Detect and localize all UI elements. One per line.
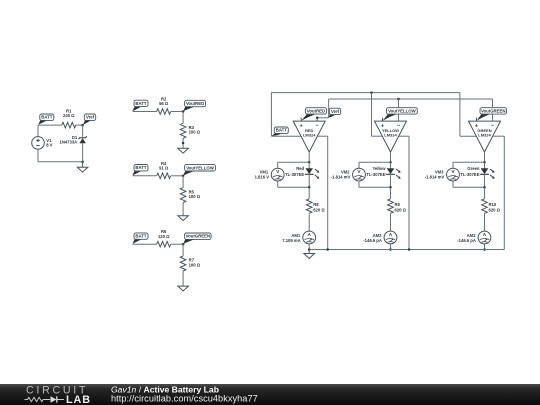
node Vref rail tap for U2 xyxy=(397,98,400,101)
svg-text:A: A xyxy=(389,232,393,238)
CircuitLab logo diode xyxy=(51,396,57,402)
svg-text:LM324: LM324 xyxy=(478,132,491,137)
wire LED to node xyxy=(484,174,486,187)
wire voltmeter VM2 top loop xyxy=(359,161,391,163)
node U1 output junction xyxy=(308,161,311,164)
pin stub U2 non-inverting input xyxy=(382,118,384,122)
svg-text:http://circuitlab.com/cscu4bkx: http://circuitlab.com/cscu4bkxyha77 xyxy=(111,394,258,404)
wire D1 anode to bottom xyxy=(82,143,84,161)
wire R2 to VoutRED node xyxy=(171,111,183,113)
wire voltmeter VM1 top loop xyxy=(278,161,310,163)
svg-text:VoutGREEN: VoutGREEN xyxy=(186,234,211,239)
ground left circuit xyxy=(82,162,84,168)
node below LED xyxy=(483,186,486,189)
svg-text:A: A xyxy=(307,232,311,238)
voltmeter VM3 xyxy=(447,168,460,181)
ground divider 1 xyxy=(178,148,189,153)
svg-text:Vref: Vref xyxy=(331,109,340,114)
node flag VoutRED xyxy=(183,107,194,112)
svg-text:TL-307EE: TL-307EE xyxy=(366,172,385,177)
node bottom junction xyxy=(81,160,84,163)
svg-text:VoutRED: VoutRED xyxy=(186,101,204,106)
svg-text:91 Ω: 91 Ω xyxy=(159,165,169,170)
svg-text:BATT: BATT xyxy=(135,101,147,106)
node U3 output junction xyxy=(483,161,486,164)
svg-text:VoutRED: VoutRED xyxy=(307,108,325,113)
zener diode D1 xyxy=(79,136,87,143)
svg-text:LM324: LM324 xyxy=(384,132,397,137)
svg-text:BATT: BATT xyxy=(135,234,147,239)
resistor R5 xyxy=(180,188,186,203)
svg-text:Green: Green xyxy=(467,166,480,171)
wire BATT rail drop to op-amp U2 V+ xyxy=(371,93,373,137)
svg-text:TL-307EE: TL-307EE xyxy=(460,172,479,177)
node flag VoutGREEN xyxy=(183,239,194,244)
ground divider 2 xyxy=(178,216,189,221)
wire VoutGREEN node down to R7 xyxy=(182,244,184,256)
svg-text:BATT: BATT xyxy=(41,115,53,120)
node VoutGREEN junction xyxy=(182,243,185,246)
pin stub U3 non-inverting input xyxy=(476,118,478,122)
wire V1 top lead xyxy=(37,125,39,137)
ammeter AM3 xyxy=(478,231,491,244)
resistor R7 xyxy=(180,256,186,271)
svg-text:240 Ω: 240 Ω xyxy=(63,113,75,118)
ground divider 3 xyxy=(178,286,189,291)
wire R7 to ground xyxy=(182,271,184,286)
wire voltmeter VM3 top loop xyxy=(453,161,485,163)
svg-text:7.109 mA: 7.109 mA xyxy=(282,238,300,243)
pin stub U1 inverting input xyxy=(316,118,318,121)
node flag VoutRED at U1 xyxy=(301,114,316,121)
wire Vref rail drop to U2 inverting input xyxy=(398,99,400,121)
svg-text:120 Ω: 120 Ω xyxy=(158,234,170,239)
LED D2 Red xyxy=(306,169,312,174)
svg-text:Red: Red xyxy=(296,166,304,171)
svg-text:TL-307EE: TL-307EE xyxy=(285,172,304,177)
resistor R9 xyxy=(388,199,394,214)
ammeter AM1 xyxy=(303,231,316,244)
wire BATT to R4 xyxy=(133,175,157,177)
wire U1 output down xyxy=(308,152,310,162)
wire voltmeter VM1 bottom loop xyxy=(277,181,279,187)
wire node to resistor R8 xyxy=(308,187,310,199)
wire ammeter AM1 to ground rail xyxy=(308,244,310,250)
node flag Vref at op-amp U1 xyxy=(329,114,336,117)
resistor R10 xyxy=(482,199,488,214)
wire BATT rail (top) xyxy=(271,92,460,94)
node flag BATT divider 3 xyxy=(132,239,141,244)
wire BATT to R1 top-left xyxy=(38,124,62,126)
node flag BATT left circuit xyxy=(38,120,47,124)
svg-text:100 Ω: 100 Ω xyxy=(189,194,201,199)
svg-text:Yellow: Yellow xyxy=(372,166,386,171)
node AM1 at ground rail xyxy=(308,248,311,251)
wire VoutRED node down to R3 xyxy=(182,112,184,124)
wire BATT drop to op-amp U1 V+ xyxy=(270,93,272,137)
svg-text:BATT: BATT xyxy=(276,128,288,133)
voltmeter VM2 xyxy=(353,168,366,181)
resistor R1 xyxy=(62,122,76,128)
svg-text:A: A xyxy=(483,232,487,238)
svg-text:100 Ω: 100 Ω xyxy=(189,130,201,135)
wire R6 to VoutGREEN node xyxy=(171,243,183,245)
wire bottom of left circuit xyxy=(38,161,83,163)
svg-text:LAB: LAB xyxy=(66,394,91,405)
wire V1 bottom lead xyxy=(37,149,39,162)
svg-text:100 Ω: 100 Ω xyxy=(189,262,201,267)
CircuitLab logo wire and resistor xyxy=(25,397,51,401)
svg-text:1.816 V: 1.816 V xyxy=(255,174,270,179)
wire R10 to ammeter AM3 xyxy=(484,213,486,231)
op-amp U1 RED LM324 xyxy=(293,121,325,152)
node below LED xyxy=(308,186,311,189)
wire U1 inverting input to Vref riser xyxy=(317,117,328,119)
node above ground xyxy=(182,142,185,145)
svg-text:620 Ω: 620 Ω xyxy=(395,207,407,212)
op-amp U3 GREEN LM324 xyxy=(469,121,501,152)
wire R3 to ground xyxy=(182,138,184,148)
svg-text:BATT: BATT xyxy=(135,165,147,170)
node flag BATT divider 2 xyxy=(132,171,141,176)
wire Vref rail (second) xyxy=(329,98,493,100)
wire U2 output down xyxy=(390,152,392,162)
svg-text:-1.814 mV: -1.814 mV xyxy=(425,174,445,179)
wire BATT rail drop to op-amp U3 V+ xyxy=(459,93,461,137)
resistor R6 xyxy=(157,241,171,247)
svg-text:-146.6 pA: -146.6 pA xyxy=(457,238,476,243)
resistor R8 xyxy=(306,199,312,214)
wire U3 output down xyxy=(484,152,486,162)
wire BATT to R2 xyxy=(133,111,157,113)
svg-text:R8: R8 xyxy=(313,202,319,207)
node U1 inverting input xyxy=(316,117,319,120)
ground symbol right section xyxy=(308,250,310,254)
wire U2 V- lead to ground drop xyxy=(399,135,409,137)
LED D3 Yellow xyxy=(387,169,393,174)
svg-text:620 Ω: 620 Ω xyxy=(313,207,325,212)
svg-text:1N4733A: 1N4733A xyxy=(59,140,77,145)
wire voltmeter VM3 bottom loop xyxy=(452,181,454,187)
voltmeter VM1 xyxy=(271,168,284,181)
wire R4 to VoutYELLOW node xyxy=(171,175,183,177)
wire ammeter AM3 to ground rail xyxy=(484,244,486,250)
pin stub U1 non-inverting input xyxy=(300,118,302,122)
node flag BATT divider 1 xyxy=(132,107,141,112)
node U1 V- at ground rail xyxy=(326,248,329,251)
node AM2 at ground rail xyxy=(389,248,392,251)
resistor R2 xyxy=(157,109,171,115)
ammeter AM2 xyxy=(384,231,397,244)
wire R5 to ground xyxy=(182,203,184,216)
node VoutRED junction xyxy=(182,110,185,113)
wire node to resistor R10 xyxy=(484,187,486,199)
wire U1 output to LED xyxy=(308,162,310,168)
svg-text:8 V: 8 V xyxy=(46,143,52,148)
wire U3 V- lead to ground drop xyxy=(493,135,505,137)
wire R9 to ammeter AM2 xyxy=(390,213,392,231)
wire LED to node xyxy=(390,174,392,187)
svg-text:56 Ω: 56 Ω xyxy=(159,101,169,106)
wire ground rail (bottom) xyxy=(309,249,504,251)
wire R1 to Vref node xyxy=(76,124,83,126)
voltage source V1 xyxy=(32,137,45,150)
op-amp U2 YELLOW LM324 xyxy=(375,121,407,152)
svg-text:-1.814 mV: -1.814 mV xyxy=(331,174,351,179)
svg-text:Vref: Vref xyxy=(86,115,95,120)
wire U3 output to LED xyxy=(484,162,486,168)
svg-text:620 Ω: 620 Ω xyxy=(489,207,501,212)
wire U2 output to LED xyxy=(390,162,392,168)
svg-text:-146.6 pA: -146.6 pA xyxy=(363,238,382,243)
wire Vref rail riser from U1 inverting input xyxy=(328,99,330,118)
wire Vref to D1 cathode xyxy=(82,125,84,137)
node BATT rail tap for U2 xyxy=(370,91,373,94)
svg-text:VoutYELLOW: VoutYELLOW xyxy=(388,108,417,113)
svg-text:VoutGREEN: VoutGREEN xyxy=(481,108,506,113)
resistor R4 xyxy=(157,173,171,179)
node flag VoutGREEN at U3 xyxy=(477,114,491,121)
wire ammeter AM2 to ground rail xyxy=(390,244,392,250)
node Vref junction xyxy=(81,124,84,127)
wire U1 V- lead to ground drop xyxy=(317,135,327,137)
wire R8 to ammeter AM1 xyxy=(308,213,310,231)
node flag BATT at op-amp U1 xyxy=(272,133,282,135)
node VoutYELLOW junction xyxy=(182,175,185,178)
node flag VoutYELLOW xyxy=(183,171,194,176)
wire node to resistor R9 xyxy=(390,187,392,199)
node below LED xyxy=(389,186,392,189)
node flag VoutYELLOW at U2 xyxy=(383,114,398,121)
node AM3 at ground rail xyxy=(483,248,486,251)
svg-text:VoutYELLOW: VoutYELLOW xyxy=(186,165,215,170)
wire voltmeter VM2 bottom loop xyxy=(358,181,360,187)
svg-text:LM324: LM324 xyxy=(303,132,316,137)
node U2 V- at ground rail xyxy=(408,248,411,251)
LED D4 Green xyxy=(481,169,487,174)
wire VoutYELLOW node down to R5 xyxy=(182,176,184,188)
node flag Vref left circuit xyxy=(83,120,91,124)
svg-text:R10: R10 xyxy=(489,202,497,207)
resistor R3 xyxy=(180,123,186,138)
svg-text:R9: R9 xyxy=(395,202,401,207)
wire BATT to R6 xyxy=(133,243,157,245)
wire LED to node xyxy=(308,174,310,187)
node U2 output junction xyxy=(389,161,392,164)
wire Vref rail drop to U3 inverting input xyxy=(492,99,494,121)
